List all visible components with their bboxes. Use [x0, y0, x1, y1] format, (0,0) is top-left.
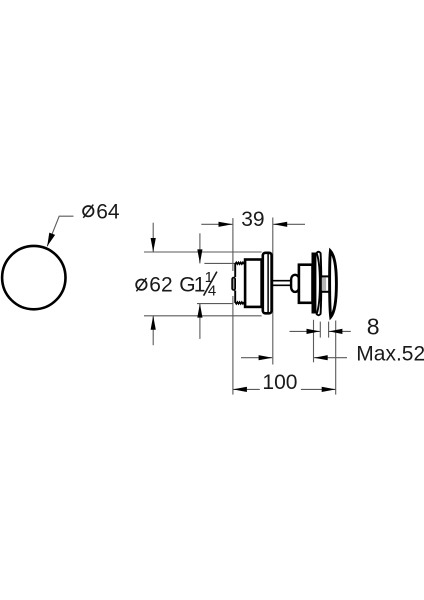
- part: second cylinder: [299, 265, 313, 303]
- part: gray tab (tailpiece end): [232, 278, 235, 290]
- ø62 extension line top: [144, 251, 262, 253]
- G1/4 extension line top: [204, 262, 240, 264]
- svg-text:4: 4: [208, 283, 216, 300]
- part: flange inner line: [267, 253, 269, 313]
- dim 39 right arrow: [273, 223, 305, 225]
- dim 39 left arrow: [201, 223, 232, 225]
- extension line: 100 right (x=335.7): [335, 321, 337, 395]
- svg-text:39: 39: [241, 208, 264, 231]
- dim Max.52 left arrow: [241, 357, 272, 359]
- dim 100 right arrow (outward): [301, 388, 336, 390]
- part: hub bottom line: [322, 291, 330, 293]
- dim 8 left arrow: [290, 330, 321, 332]
- svg-text:64: 64: [96, 200, 120, 223]
- part: body cylinder: [245, 260, 262, 307]
- part: flared skirt (crescent): [317, 252, 322, 316]
- dim 100 left arrow (outward): [233, 388, 260, 390]
- circle: plug face view ø64: [2, 246, 65, 309]
- dim 8 right arrow: [329, 330, 351, 332]
- part: thread crest bottom (wavy): [235, 302, 244, 304]
- part: thread left edge: [234, 263, 236, 303]
- label ø62 G1 1/4: [136, 269, 217, 300]
- G1/4 extension line bottom: [197, 303, 233, 305]
- svg-text:8: 8: [367, 314, 380, 340]
- part: thread crest top (wavy): [235, 262, 244, 264]
- part: flange (rounded): [263, 253, 272, 313]
- G1/4 top arrow: [199, 233, 201, 263]
- svg-text:100: 100: [262, 371, 297, 394]
- part: rubber seal bar (solid): [312, 253, 317, 314]
- part: dome cap (lens): [330, 251, 337, 317]
- label ø64: [83, 200, 120, 223]
- ø62 top arrow: [152, 223, 154, 252]
- dim Max.52 right arrow: [314, 357, 347, 359]
- ø62 bottom arrow: [152, 316, 154, 345]
- extension line: 8 right (x=328.6): [328, 322, 330, 338]
- part: hub gray fill: [322, 278, 326, 291]
- svg-text:62: 62: [149, 274, 172, 297]
- ø62 extension line bottom: [144, 315, 262, 317]
- extension line right of flange (x=272.8): [272, 218, 274, 365]
- G1/4 bottom arrow: [199, 304, 201, 339]
- part: hub top line: [322, 275, 330, 277]
- part: knob (rounded left): [291, 275, 299, 292]
- extension line left (x=232.9, broken at part): [232, 218, 234, 271]
- part: stem (two lines): [272, 281, 292, 286]
- leader arrowhead: [47, 233, 55, 247]
- svg-text:Max.52: Max.52: [356, 343, 424, 366]
- extension line: Max52 right (x=313.5): [313, 320, 315, 363]
- leader line for ø64: [47, 216, 73, 246]
- extension line: 8 left (x=320.3): [319, 322, 321, 338]
